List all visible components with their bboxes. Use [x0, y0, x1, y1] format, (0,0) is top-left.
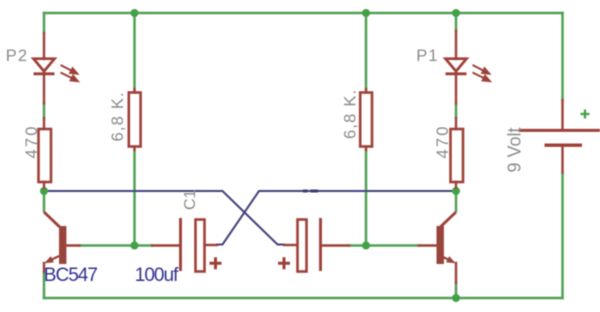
svg-text:9 Volt: 9 Volt — [505, 127, 525, 172]
svg-text:BC547: BC547 — [44, 265, 98, 286]
svg-text:100uf: 100uf — [135, 265, 179, 286]
svg-text:6,8 K.: 6,8 K. — [109, 91, 127, 141]
svg-text:C1: C1 — [182, 189, 199, 210]
svg-text:6,8 K.: 6,8 K. — [341, 89, 359, 139]
svg-text:P1: P1 — [416, 47, 438, 65]
svg-text:470: 470 — [434, 124, 452, 158]
svg-text:470: 470 — [23, 124, 41, 158]
svg-text:P2: P2 — [6, 47, 28, 65]
